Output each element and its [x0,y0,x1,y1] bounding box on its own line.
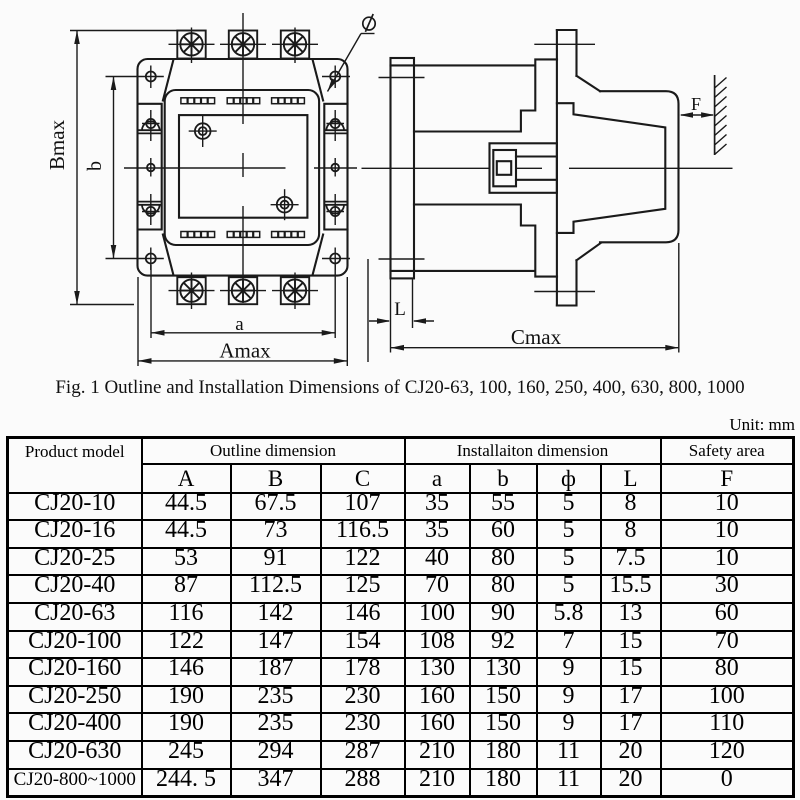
shroud chamfer top-right [313,59,324,100]
shroud chamfer bottom-left [163,235,174,276]
terminal T5 bottom [220,277,266,304]
side flange plate [391,58,415,278]
right flange inner edge [324,104,347,230]
unit note [729,415,795,435]
svg-text:L: L [394,299,406,320]
slot hole upper-left [139,110,162,141]
side view horizontal centerline [362,167,733,169]
front view body [138,59,348,276]
terminal T1 top [169,28,215,64]
slot hole upper-right [324,110,347,141]
Bmax dimension [70,31,177,305]
tab centerline tick bottom [534,291,595,293]
terminal T4 bottom [169,273,215,310]
mounting wall hatched [715,75,727,155]
mounting hole top-right [322,66,350,89]
vent slots bottom row [181,232,215,238]
inner cover rounded face [165,90,319,245]
slot hole lower-right [324,194,347,225]
flange centerline tick top [379,77,425,79]
terminal T6 bottom [272,273,318,310]
flange boss line top [391,64,415,66]
inner window square [179,115,307,218]
figure caption [0,377,800,399]
svg-text:Bmax: Bmax [45,119,69,170]
terminal T3 top [272,28,318,64]
mounting hole top-left [146,66,156,89]
svg-text:Cmax: Cmax [511,325,562,349]
svg-text:b: b [84,161,106,171]
mounting hole bottom-left [146,248,156,271]
horizontal centerline [124,167,357,169]
mechanism outer box [490,143,557,193]
slot hole lower-left [139,194,162,225]
vertical centerline [242,13,244,303]
b dimension [106,77,164,259]
side hole middle-right [331,158,339,177]
F dimension [681,114,713,116]
svg-text:Amax: Amax [219,339,271,363]
vent slots top row [181,98,215,104]
side hole middle-left [147,158,155,177]
flange centerline tick bottom [379,258,425,260]
phi leader [328,34,375,92]
tab centerline tick top [534,43,595,45]
screw head upper [189,116,217,147]
left flange inner edge [139,104,162,230]
terminal tab bottom [557,260,577,305]
screw head lower [271,189,299,220]
mechanism channel lines [516,157,557,180]
arc chute body [600,91,679,242]
shroud chamfer top-left [163,59,174,100]
fillet top [577,76,601,91]
magnet trapezoid top step [557,103,665,233]
Cmax dimension [678,243,680,353]
magnet frame face [556,30,558,306]
upper coil [414,59,557,131]
shroud chamfer bottom-right [313,235,324,276]
mechanism inner box [493,150,516,186]
svg-text:a: a [235,314,244,335]
fillet bottom [577,243,602,260]
svg-text:F: F [691,94,701,114]
a dimension [151,265,335,338]
flange boss line bottom [391,270,415,272]
terminal T2 top [220,31,266,59]
mounting hole bottom-right [322,248,350,271]
Amax dimension [138,277,347,366]
lower coil [414,205,557,277]
terminal tab top [557,30,577,76]
armature small square [497,161,511,175]
label phi [363,14,375,32]
dimensions table [6,436,795,798]
L dimension [367,259,369,362]
